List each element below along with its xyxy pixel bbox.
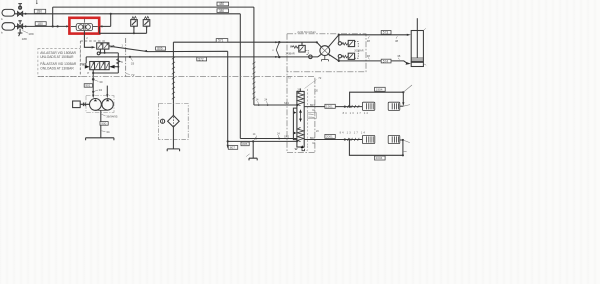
- svg-text:571: 571: [218, 39, 224, 43]
- svg-text:806: 806: [157, 47, 163, 51]
- svg-text:200BAR: 200BAR: [354, 50, 364, 53]
- svg-text:380: 380: [219, 9, 225, 13]
- svg-text:573: 573: [383, 31, 389, 35]
- svg-text:805: 805: [242, 142, 247, 146]
- svg-text:20: 20: [316, 130, 319, 133]
- svg-text:2004: 2004: [376, 156, 383, 160]
- svg-text:W: W: [290, 44, 293, 48]
- svg-text:2: 2: [86, 36, 88, 40]
- svg-text:2x31.5cm³/turn: 2x31.5cm³/turn: [297, 30, 316, 34]
- svg-text:900: 900: [101, 122, 106, 126]
- svg-text:19bar: 19bar: [308, 113, 314, 116]
- svg-text:2001: 2001: [326, 135, 333, 139]
- svg-text:807: 807: [230, 146, 235, 150]
- svg-text:480: 480: [219, 2, 225, 6]
- svg-text:ls: ls: [1, 18, 4, 21]
- svg-text:ls: ls: [1, 31, 4, 34]
- svg-text:20: 20: [315, 89, 318, 92]
- svg-text:34: 34: [106, 130, 110, 134]
- svg-text:14: 14: [256, 99, 259, 102]
- svg-text:38: 38: [367, 54, 371, 58]
- svg-text:280: 280: [37, 10, 43, 14]
- svg-text:14: 14: [253, 133, 256, 136]
- svg-text:180: 180: [37, 22, 43, 26]
- svg-text:84 13 17 14: 84 13 17 14: [343, 112, 369, 115]
- svg-text:1904: 1904: [376, 88, 383, 92]
- svg-text:N: N: [121, 60, 123, 64]
- svg-text:UNLOADS AT 150BAR: UNLOADS AT 150BAR: [40, 55, 74, 59]
- svg-text:PÅLASTAR VID 130BAR: PÅLASTAR VID 130BAR: [40, 61, 77, 66]
- svg-text:30: 30: [99, 80, 103, 84]
- svg-text:24: 24: [277, 133, 280, 136]
- svg-text:72: 72: [131, 73, 135, 77]
- svg-text:572: 572: [198, 57, 204, 61]
- svg-text:AVLASTAR VID 150BAR: AVLASTAR VID 150BAR: [40, 51, 76, 55]
- svg-text:W: W: [295, 147, 298, 151]
- svg-text:73: 73: [288, 75, 292, 79]
- svg-text:574: 574: [383, 59, 389, 63]
- svg-text:110bar: 110bar: [308, 116, 315, 119]
- svg-text:188: 188: [22, 37, 27, 41]
- svg-text:24: 24: [264, 99, 267, 102]
- svg-text:33: 33: [131, 61, 135, 65]
- svg-text:32: 32: [99, 88, 103, 92]
- svg-text:1: 1: [121, 44, 123, 48]
- svg-text:38: 38: [395, 39, 399, 43]
- svg-text:901: 901: [85, 84, 90, 88]
- svg-text:P: P: [87, 71, 89, 75]
- svg-text:72: 72: [318, 76, 322, 80]
- svg-text:1901: 1901: [326, 105, 333, 109]
- svg-text:38: 38: [397, 54, 401, 58]
- svg-text:140BAR: 140BAR: [285, 53, 295, 56]
- svg-text:36/94/95: 36/94/95: [106, 115, 118, 119]
- svg-text:38: 38: [367, 39, 371, 43]
- svg-text:x: x: [272, 48, 274, 52]
- svg-text:W: W: [341, 54, 344, 58]
- svg-text:ONLOADS AT 130BAR: ONLOADS AT 130BAR: [40, 66, 74, 70]
- svg-text:84 13 17 14: 84 13 17 14: [340, 131, 366, 134]
- svg-text:W: W: [341, 42, 344, 46]
- svg-text:189: 189: [28, 32, 33, 36]
